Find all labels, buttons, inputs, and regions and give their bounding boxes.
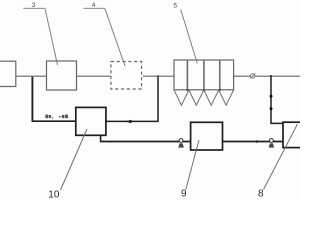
svg-text:9: 9	[181, 189, 187, 200]
svg-text:8: 8	[258, 188, 264, 199]
svg-text:10: 10	[48, 189, 60, 200]
svg-text:3: 3	[32, 2, 36, 9]
svg-text:4: 4	[92, 2, 96, 9]
svg-text:5: 5	[173, 2, 177, 9]
